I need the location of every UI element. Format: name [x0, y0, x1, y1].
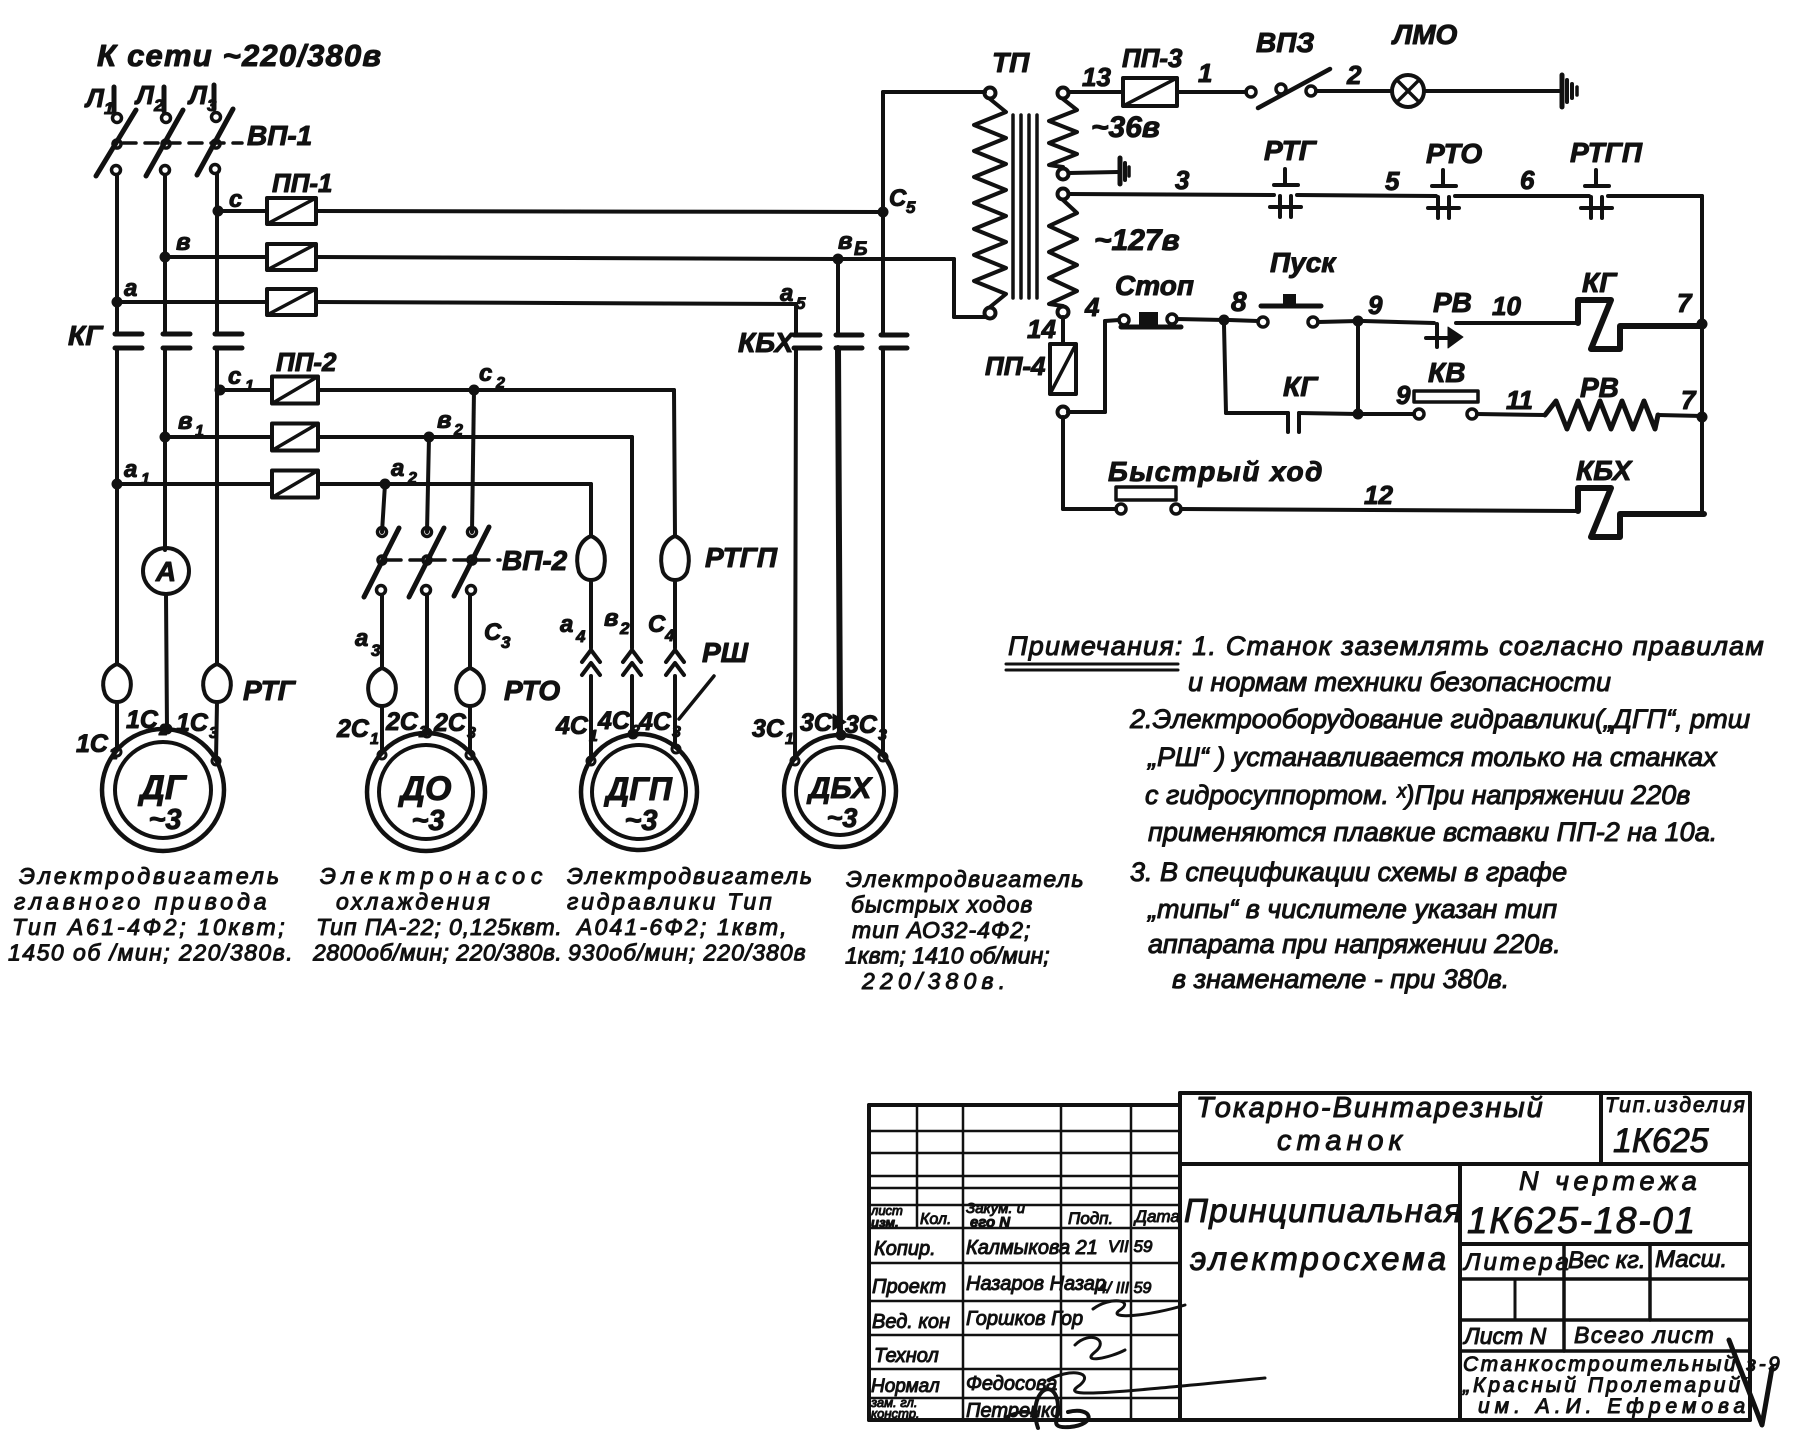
wire РТГ to motor ДГ left — [115, 702, 119, 750]
svg-text:РШ: РШ — [702, 637, 749, 668]
svg-text:2800об/мин; 220/380в.: 2800об/мин; 220/380в. — [312, 940, 562, 966]
fuse ПП-1 phase в — [267, 244, 316, 270]
svg-text:а: а — [560, 611, 573, 638]
thermal contact РТГП — [1594, 170, 1598, 186]
transformer core — [1011, 115, 1015, 298]
svg-text:5: 5 — [1385, 166, 1400, 196]
svg-text:в: в — [178, 408, 193, 435]
ammeter A — [143, 548, 189, 594]
svg-text:Горшков Гор: Горшков Гор — [966, 1308, 1083, 1330]
svg-text:с: с — [479, 360, 492, 387]
svg-text:9: 9 — [1396, 380, 1411, 410]
svg-text:РТО: РТО — [1426, 138, 1482, 169]
svg-text:2С: 2С — [385, 708, 419, 736]
aux contact КГ — [1286, 413, 1290, 432]
svg-text:4/ III 59: 4/ III 59 — [1098, 1280, 1151, 1297]
svg-text:„РШ“ ) устанавливается только: „РШ“ ) устанавливается только на станках — [1147, 742, 1718, 772]
svg-text:3С: 3С — [800, 709, 833, 737]
node 9 — [1353, 316, 1364, 327]
svg-text:1: 1 — [785, 731, 794, 748]
wire вБ to transformer — [838, 257, 954, 261]
svg-text:а: а — [391, 455, 404, 482]
wire node8 down — [1224, 325, 1226, 413]
node c — [213, 206, 224, 217]
thermal relay РТГ element phase 3 — [203, 664, 217, 702]
svg-text:ДГП: ДГП — [603, 771, 673, 807]
svg-text:Масш.: Масш. — [1655, 1246, 1727, 1273]
motor ДГП circle — [581, 734, 697, 850]
wire node9b to КВ — [1363, 412, 1414, 416]
svg-text:Б: Б — [854, 239, 867, 260]
svg-text:3: 3 — [672, 724, 681, 741]
wire 12 — [1181, 509, 1578, 511]
wire c2 down to ВП-2 — [472, 390, 474, 532]
svg-text:РВ: РВ — [1580, 372, 1619, 403]
svg-text:Калмыкова 21: Калмыкова 21 — [966, 1237, 1098, 1259]
thermal relay РТО element phase 1 — [368, 668, 382, 706]
svg-text:ПП-4: ПП-4 — [985, 351, 1046, 381]
contactor КГ main contact pole 1 — [115, 332, 142, 337]
button Стоп — [1119, 315, 1129, 325]
wire 2 — [1316, 89, 1392, 93]
svg-text:Электродвигатель: Электродвигатель — [846, 866, 1085, 892]
svg-text:VII 59: VII 59 — [1108, 1237, 1153, 1256]
svg-text:Электродвигатель: Электродвигатель — [19, 863, 282, 889]
svg-text:КГ: КГ — [1283, 371, 1319, 402]
svg-text:Л: Л — [187, 80, 208, 110]
svg-text:3: 3 — [1175, 165, 1190, 195]
transformer secondary 127в terminal top — [1058, 189, 1069, 200]
wire a1 fuse to corner — [318, 482, 591, 486]
wire phase-3 vertical upper — [215, 174, 219, 334]
fuse ПП-1 phase a — [267, 289, 316, 315]
svg-text:А: А — [155, 556, 176, 587]
svg-text:а: а — [780, 280, 793, 307]
wire node9 to РВ contact — [1363, 321, 1434, 323]
transformer secondary 127в winding — [1049, 200, 1077, 306]
svg-text:в: в — [838, 228, 853, 255]
svg-text:1: 1 — [370, 731, 379, 748]
transformer secondary 36в winding — [1049, 99, 1077, 167]
svg-text:Пуск: Пуск — [1270, 247, 1337, 278]
button Пуск — [1258, 317, 1268, 327]
thermal relay РТГ element phase 1 — [103, 664, 117, 702]
terminal below ПП-4 — [1058, 407, 1069, 418]
wire в1 fuse to corner — [318, 435, 632, 439]
node a2 — [380, 479, 391, 490]
svg-text:с: с — [229, 186, 242, 213]
svg-text:электросхема: электросхема — [1190, 1240, 1449, 1277]
motor ДГ circle — [102, 729, 224, 851]
wire вБ down — [836, 259, 840, 335]
wire node8 to Пуск — [1229, 320, 1258, 321]
svg-text:ПП-3: ПП-3 — [1122, 43, 1183, 73]
svg-text:изм.: изм. — [871, 1215, 899, 1230]
svg-text:Проект: Проект — [872, 1276, 946, 1298]
switch ВП-1 pole 1 — [113, 114, 122, 123]
svg-text:Принципиальная: Принципиальная — [1184, 1192, 1463, 1229]
svg-text:Стоп: Стоп — [1115, 270, 1194, 301]
svg-text:4: 4 — [664, 626, 675, 645]
motor ДБХ circle — [784, 735, 896, 847]
switch ВП-2 pole 3 — [468, 528, 477, 537]
svg-text:Назаров Назар: Назаров Назар — [966, 1273, 1106, 1295]
title block corner tick — [1729, 1340, 1772, 1425]
svg-text:2: 2 — [1346, 60, 1362, 90]
wire phase-3 vertical mid — [215, 348, 219, 664]
svg-text:ВПЗ: ВПЗ — [1256, 27, 1314, 58]
wire Стоп to node 8 — [1177, 319, 1224, 320]
svg-text:в: в — [176, 229, 191, 256]
svg-text:1квт; 1410 об/мин;: 1квт; 1410 об/мин; — [845, 943, 1050, 969]
wire а4 to motor ДГП — [589, 676, 593, 759]
svg-text:и нормам техники безопасности: и нормам техники безопасности — [1188, 667, 1611, 697]
svg-text:Быстрый ход: Быстрый ход — [1108, 456, 1324, 487]
svg-text:а: а — [124, 456, 137, 483]
transformer primary terminal top — [985, 88, 996, 99]
svg-text:4: 4 — [1084, 292, 1100, 322]
node в — [160, 252, 171, 263]
node в1 — [160, 432, 171, 443]
svg-text:2: 2 — [619, 619, 630, 638]
wire ammeter to motor ДГ — [166, 594, 167, 730]
contactor КБХ main contact pole 3 — [881, 333, 907, 338]
ground (lamp circuit) — [1560, 75, 1565, 107]
wire line 3 — [1069, 194, 1274, 195]
lamp ЛМО — [1392, 75, 1424, 107]
node 9b — [1353, 409, 1364, 420]
contactor КГ main contact pole 2 — [163, 332, 190, 337]
svg-text:ПП-2: ПП-2 — [276, 347, 337, 377]
svg-text:3С: 3С — [752, 715, 785, 743]
node 7b — [1697, 412, 1708, 423]
svg-text:Дата: Дата — [1133, 1207, 1180, 1226]
svg-text:„Красный Пролетарий“: „Красный Пролетарий“ — [1462, 1374, 1753, 1397]
svg-text:С: С — [484, 619, 502, 646]
wire a fuse to corner a5 — [316, 302, 796, 304]
svg-text:С: С — [889, 185, 907, 212]
svg-text:1К625: 1К625 — [1613, 1122, 1709, 1160]
incoming line Л3 lead — [212, 85, 217, 109]
plug РШ arrows в2 — [623, 650, 641, 662]
wire РТО to motor ДО right — [468, 706, 472, 753]
wire a to fuse — [117, 300, 267, 304]
wire C5 up — [881, 92, 885, 212]
fuse ПП-3 — [1123, 78, 1177, 106]
svg-text:РТГ: РТГ — [1264, 135, 1318, 166]
svg-text:КГ: КГ — [68, 320, 104, 351]
incoming line Л2 lead — [162, 87, 167, 111]
svg-text:~127в: ~127в — [1094, 224, 1180, 257]
svg-text:а: а — [124, 275, 137, 302]
switch ВП-1 pole 2 — [162, 114, 171, 123]
svg-text:Тип ПА-22; 0,125квт.: Тип ПА-22; 0,125квт. — [316, 914, 563, 940]
transformer primary terminal bottom — [985, 308, 996, 319]
plug РШ arrows а4 — [582, 650, 600, 662]
svg-text:ВП-2: ВП-2 — [502, 545, 568, 576]
svg-text:3: 3 — [878, 727, 887, 744]
limit switch КВ — [1414, 409, 1424, 419]
thermal contact РТО — [1441, 170, 1445, 186]
wire а5 corner down — [794, 304, 798, 335]
svg-text:~3: ~3 — [624, 805, 657, 837]
svg-text:3: 3 — [371, 641, 381, 660]
svg-text:Технол: Технол — [874, 1345, 939, 1367]
svg-text:Л: Л — [84, 83, 105, 113]
wire a1 to fuse — [117, 482, 272, 486]
node a1 — [112, 479, 123, 490]
svg-text:им. А.И. Ефремова: им. А.И. Ефремова — [1478, 1395, 1750, 1418]
wire a2 down to ВП-2 — [382, 484, 385, 532]
svg-text:Токарно-Винтарезный: Токарно-Винтарезный — [1196, 1092, 1545, 1124]
svg-text:Всего лист: Всего лист — [1574, 1322, 1715, 1348]
switch ВП-2 pole 1 — [378, 528, 387, 537]
node a — [112, 297, 123, 308]
wire ВП-2 pole1 down — [380, 595, 384, 668]
wire в fuse to node вБ — [316, 257, 838, 259]
svg-text:Примечания: 1. Станок заземлят: Примечания: 1. Станок заземлять согласно… — [1008, 631, 1765, 661]
svg-text:2С: 2С — [336, 715, 370, 743]
wire 127в to fuse ПП-4 — [1061, 317, 1065, 344]
svg-text:~36в: ~36в — [1091, 111, 1160, 144]
svg-text:7: 7 — [1681, 385, 1697, 415]
node c1 — [215, 385, 226, 396]
wire c fuse to node C5 — [316, 211, 883, 212]
wire phase-2 vertical upper — [163, 175, 167, 334]
wire phase-1 vertical upper — [115, 175, 119, 334]
notes underline — [1006, 663, 1178, 666]
wire c1 fuse to corner — [318, 388, 674, 392]
svg-text:охлаждения: охлаждения — [336, 889, 493, 915]
wire to КГ aux contact — [1226, 411, 1288, 415]
incoming line Л1 lead — [112, 87, 117, 111]
wire ПП-4 to Стоп — [1068, 410, 1105, 414]
wire КВ to РВ resistor — [1477, 414, 1545, 415]
svg-text:РТО: РТО — [504, 675, 560, 706]
svg-text:Литера: Литера — [1462, 1249, 1572, 1276]
wire С5 to motor ДБХ — [881, 348, 885, 755]
svg-text:~3: ~3 — [827, 803, 858, 833]
switch ВП-1 pole 3 — [212, 113, 221, 122]
wire в to fuse — [165, 255, 267, 259]
wire Пуск to node 9 — [1318, 321, 1358, 322]
svg-text:Нормал: Нормал — [871, 1376, 940, 1397]
svg-text:РТГП: РТГП — [705, 542, 778, 573]
svg-text:Электронасос: Электронасос — [320, 863, 548, 889]
thermal contact РТГ — [1283, 169, 1287, 185]
node 8 — [1219, 315, 1230, 326]
svg-text:РТГП: РТГП — [1570, 137, 1643, 168]
svg-text:3: 3 — [467, 725, 476, 742]
svg-text:14: 14 — [1027, 314, 1056, 344]
svg-text:11: 11 — [1506, 385, 1533, 415]
wire ВП-2 pole3 down — [468, 595, 472, 668]
relay РВ heater — [1545, 401, 1658, 429]
contactor КБХ main contact pole 2 — [836, 333, 862, 338]
svg-text:2: 2 — [407, 470, 417, 487]
svg-text:тип АО32-4Ф2;: тип АО32-4Ф2; — [852, 917, 1031, 943]
thermal relay РТГП element а4 — [577, 536, 591, 580]
svg-text:~3: ~3 — [411, 805, 444, 837]
node c2 — [469, 385, 480, 396]
timer contact РВ — [1435, 324, 1439, 347]
svg-text:6: 6 — [1520, 165, 1535, 195]
svg-text:5: 5 — [906, 198, 916, 217]
svg-text:станок: станок — [1277, 1125, 1407, 1157]
svg-text:констр.: констр. — [871, 1406, 920, 1421]
svg-text:8: 8 — [1231, 286, 1247, 317]
wire вБ to motor ДБХ (heavy) — [838, 348, 840, 735]
fuse ПП-2 phase в — [272, 424, 318, 451]
svg-text:2: 2 — [453, 422, 463, 439]
svg-text:ПП-1: ПП-1 — [272, 168, 333, 198]
transformer secondary 36в terminal bottom — [1058, 169, 1069, 180]
node в2 — [424, 432, 435, 443]
svg-text:К сети ~220/380в: К сети ~220/380в — [97, 38, 382, 73]
svg-text:~3: ~3 — [148, 804, 181, 836]
svg-text:в: в — [437, 407, 452, 434]
svg-text:ЛМО: ЛМО — [1391, 19, 1458, 50]
switch ВП-2 pole 2 — [423, 528, 432, 537]
svg-text:1: 1 — [245, 378, 254, 395]
contactor КБХ main contact pole 1 — [794, 333, 820, 338]
svg-text:КГ: КГ — [1582, 267, 1618, 298]
title block left grid — [869, 1130, 1180, 1133]
svg-text:ТП: ТП — [992, 47, 1030, 78]
svg-text:1450 об /мин; 220/380в.: 1450 об /мин; 220/380в. — [8, 940, 294, 966]
wire С4 to motor ДГП — [673, 676, 677, 747]
svg-text:Электродвигатель: Электродвигатель — [567, 863, 814, 889]
svg-text:930об/мин; 220/380в: 930об/мин; 220/380в — [568, 940, 807, 966]
wire РТГ to motor ДГ right — [216, 702, 217, 760]
svg-text:3: 3 — [209, 725, 218, 742]
svg-text:Подп.: Подп. — [1068, 1209, 1113, 1228]
wire ВП-2 pole2 down to motor ДО — [425, 595, 429, 733]
wire КГ aux to node 9b — [1299, 413, 1358, 414]
wire 36в to ground — [1069, 172, 1118, 173]
svg-text:1С: 1С — [76, 730, 109, 758]
svg-text:4С: 4С — [555, 712, 589, 740]
svg-text:применяются плавкие вставки ПП: применяются плавкие вставки ПП-2 на 10а. — [1148, 817, 1717, 847]
svg-text:220/380в.: 220/380в. — [861, 968, 1010, 994]
svg-text:„типы“ в числителе указан: „типы“ в числителе указан тип — [1147, 894, 1557, 924]
svg-text:ДБХ: ДБХ — [806, 772, 874, 805]
svg-text:3: 3 — [501, 633, 511, 652]
svg-text:РТГ: РТГ — [243, 675, 297, 706]
contactor КГ main contact pole 3 — [215, 332, 242, 337]
fuse ПП-2 phase c — [272, 377, 318, 404]
wire а4 corner down — [589, 484, 593, 536]
svg-text:А041-6Ф2; 1квт,: А041-6Ф2; 1квт, — [575, 914, 789, 940]
wire РВ contact to КГ coil — [1456, 321, 1578, 325]
wire c1 to fuse — [220, 388, 272, 392]
svg-text:главного привода: главного привода — [14, 889, 271, 915]
svg-text:Л: Л — [134, 80, 155, 110]
svg-text:1К625-18-01: 1К625-18-01 — [1467, 1200, 1697, 1241]
coil КБХ — [1578, 488, 1704, 537]
wire а4 to arrows — [589, 580, 593, 648]
svg-text:4: 4 — [575, 627, 586, 646]
transformer secondary 127в terminal bottom — [1058, 307, 1069, 318]
transformer primary winding — [974, 99, 1006, 307]
wire C5 to transformer primary top — [883, 90, 985, 94]
wire ПП-4 down to Быстрый ход — [1061, 417, 1065, 509]
svg-text:быстрых ходов: быстрых ходов — [851, 892, 1033, 918]
svg-text:1: 1 — [589, 728, 598, 745]
coil КГ — [1578, 300, 1702, 349]
svg-text:1: 1 — [1198, 58, 1212, 88]
switch ВП-1 linkage (dashed) — [123, 141, 242, 145]
switch ВПЗ — [1246, 87, 1256, 97]
svg-text:10: 10 — [1492, 291, 1521, 321]
transformer secondary 36в terminal top — [1058, 88, 1069, 99]
wire в2 to motor ДГП — [630, 676, 634, 734]
wire lamp to ground — [1424, 89, 1562, 93]
svg-text:3. В спецификации схемы в: 3. В спецификации схемы в графе — [1130, 857, 1567, 887]
svg-text:7: 7 — [1677, 288, 1693, 318]
svg-text:Петренко: Петренко — [966, 1400, 1062, 1422]
svg-text:РВ: РВ — [1433, 287, 1472, 318]
fuse ПП-4 — [1050, 344, 1076, 394]
plug РШ arrows С4 — [666, 650, 684, 662]
wire РВ to node 7b — [1658, 415, 1702, 416]
svg-text:гидравлики Тип: гидравлики Тип — [567, 889, 774, 915]
svg-text:ВП-1: ВП-1 — [247, 120, 312, 151]
svg-text:его N: его N — [970, 1214, 1011, 1231]
wire С4 corner down — [674, 390, 675, 536]
node C5 — [878, 207, 889, 218]
wire в2 down to ВП-2 — [427, 437, 429, 532]
wire phase-2 vertical mid — [163, 348, 167, 550]
switch ВП-2 linkage (dashed) — [388, 558, 500, 562]
svg-text:а: а — [355, 625, 368, 652]
wire phase-1 vertical mid — [115, 348, 119, 664]
svg-text:с гидросуппортом. ˣ)При напря: с гидросуппортом. ˣ)При напряжении 220в — [1145, 780, 1690, 810]
thermal relay РТО element phase 3 — [456, 668, 470, 706]
fuse ПП-1 phase c — [267, 198, 316, 224]
svg-text:13: 13 — [1082, 62, 1111, 92]
svg-text:9: 9 — [1368, 290, 1383, 320]
svg-text:в знаменателе - при 380в.: в знаменателе - при 380в. — [1172, 964, 1509, 994]
svg-text:Копир.: Копир. — [874, 1238, 936, 1260]
wire а5 to motor ДБХ — [795, 348, 796, 759]
svg-text:Кол.: Кол. — [920, 1211, 951, 1228]
svg-text:2.Электрооборудование гидравли: 2.Электрооборудование гидравлики(„ДГП“, … — [1129, 704, 1750, 734]
wire 13 — [1069, 90, 1123, 94]
svg-text:Лист N: Лист N — [1462, 1323, 1547, 1349]
wire c to fuse — [218, 209, 267, 213]
ground (36в winding) — [1118, 158, 1123, 184]
svg-text:N чертежа: N чертежа — [1519, 1166, 1701, 1196]
svg-text:2: 2 — [495, 375, 505, 392]
plug РШ pointer line — [679, 676, 714, 719]
svg-text:Вес кг.: Вес кг. — [1568, 1247, 1646, 1274]
right bus vertical — [1700, 196, 1704, 513]
svg-text:4С: 4С — [638, 708, 672, 736]
svg-text:КБХ: КБХ — [738, 327, 796, 358]
title block signatures — [1075, 1337, 1125, 1358]
wire РТО to motor ДО left — [380, 706, 384, 753]
svg-text:Вед. кон: Вед. кон — [872, 1311, 950, 1333]
svg-text:Тип.изделия: Тип.изделия — [1605, 1094, 1747, 1117]
title block frame — [869, 1103, 1180, 1107]
thermal relay РТГП element С4 — [661, 536, 675, 580]
node 7 (КГ line) — [1697, 319, 1708, 330]
wire в2 corner down — [630, 437, 634, 648]
node вБ — [833, 254, 844, 265]
svg-text:4С: 4С — [597, 707, 631, 735]
button Быстрый ход — [1116, 504, 1126, 514]
